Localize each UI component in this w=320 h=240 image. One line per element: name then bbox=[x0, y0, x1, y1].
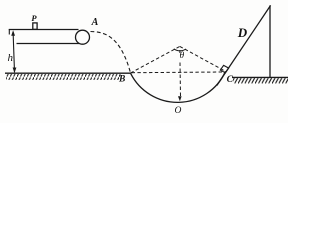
incline C to D peak bbox=[217, 5, 271, 85]
wall vertical line bbox=[269, 5, 271, 77]
dashed chord B to C bbox=[132, 71, 223, 74]
ground hatching right bbox=[233, 78, 288, 84]
arrowhead down at O bbox=[178, 96, 182, 101]
svg-text:C: C bbox=[227, 75, 234, 85]
h top arrowhead bbox=[11, 30, 15, 36]
dashed vertical center to O (lower) bbox=[179, 63, 182, 97]
svg-text:D: D bbox=[237, 25, 248, 40]
svg-text:B: B bbox=[118, 74, 125, 84]
angle arc at center bbox=[174, 49, 186, 51]
projectile trajectory dashed A to B bbox=[91, 32, 131, 74]
block P bbox=[33, 23, 37, 29]
right-angle mark at C bbox=[220, 65, 228, 72]
svg-text:A: A bbox=[91, 17, 99, 28]
h dimension line bbox=[13, 32, 14, 72]
svg-text:θ: θ bbox=[179, 51, 184, 61]
ground line right bbox=[232, 76, 288, 78]
table bottom line (conveyor bottom) bbox=[17, 43, 80, 45]
dashed vertical center to O (upper) bbox=[179, 50, 181, 53]
table top line (conveyor top) bbox=[9, 29, 79, 31]
h bottom arrowhead bbox=[13, 68, 17, 74]
valley circular arc B to C bbox=[131, 71, 226, 102]
table left end tick bbox=[8, 29, 10, 35]
dashed radius center to C bbox=[180, 46, 226, 71]
dashed radius B to center bbox=[131, 46, 180, 73]
pulley/roller at A bbox=[76, 30, 90, 44]
ground line left bbox=[5, 72, 131, 74]
svg-text:h: h bbox=[7, 52, 13, 64]
svg-text:P: P bbox=[31, 13, 37, 23]
svg-text:O: O bbox=[174, 106, 181, 116]
ground hatching left bbox=[6, 74, 121, 80]
